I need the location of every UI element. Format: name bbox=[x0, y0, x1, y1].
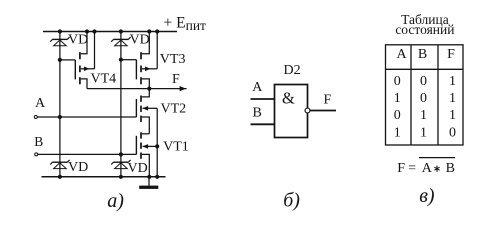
svg-text:VD: VD bbox=[68, 160, 88, 175]
svg-text:0: 0 bbox=[420, 74, 427, 89]
svg-text:B: B bbox=[446, 161, 455, 176]
terminal input B bbox=[35, 153, 38, 156]
wire output F with arrow bbox=[87, 86, 187, 91]
svg-text:0: 0 bbox=[420, 91, 427, 106]
svg-text:F: F bbox=[172, 72, 180, 87]
node rail-VD1 bbox=[58, 29, 62, 33]
svg-text:1: 1 bbox=[420, 108, 427, 123]
svg-text:VT3: VT3 bbox=[160, 52, 186, 67]
transistor VT1 (n-channel switch, gate from B) bbox=[136, 132, 157, 177]
svg-text:D2: D2 bbox=[284, 63, 301, 78]
node rail-VT3 substrate bbox=[155, 29, 159, 33]
svg-text:F: F bbox=[397, 161, 405, 176]
svg-text:&: & bbox=[282, 89, 295, 108]
diode VD (top-left, input A to +E) bbox=[50, 37, 69, 46]
svg-text:1: 1 bbox=[420, 125, 427, 140]
svg-text:F: F bbox=[447, 47, 455, 62]
node ground-VD4 bbox=[119, 175, 123, 179]
svg-text:A: A bbox=[35, 96, 46, 111]
svg-text:б): б) bbox=[283, 189, 300, 211]
svg-text:0: 0 bbox=[394, 74, 401, 89]
node rail-VT3 drain bbox=[147, 29, 151, 33]
wire input B to VT1 gate bbox=[38, 153, 136, 155]
svg-text:B: B bbox=[418, 47, 427, 62]
svg-text:1: 1 bbox=[394, 125, 401, 140]
node VT1 substrate junction bbox=[155, 144, 159, 148]
terminal input A bbox=[34, 116, 37, 119]
svg-text:A: A bbox=[422, 161, 433, 176]
wire gate output F bbox=[310, 110, 336, 112]
svg-text:VD: VD bbox=[130, 33, 150, 48]
svg-text:1: 1 bbox=[449, 91, 456, 106]
wire gate input B bbox=[251, 123, 275, 125]
ground symbol bbox=[139, 177, 158, 189]
inversion bubble bbox=[305, 108, 310, 113]
wire gate input A bbox=[251, 98, 275, 100]
svg-text:0: 0 bbox=[449, 125, 456, 140]
svg-text:VT4: VT4 bbox=[91, 71, 117, 86]
svg-text:1: 1 bbox=[394, 91, 401, 106]
node input B tap bbox=[119, 152, 123, 156]
svg-text:A: A bbox=[252, 80, 263, 95]
node rail-VD2 bbox=[119, 29, 123, 33]
wire ground rail bbox=[42, 176, 166, 178]
svg-text:0: 0 bbox=[394, 108, 401, 123]
node ground-VT1 source bbox=[147, 175, 151, 179]
node ground-VD3 bbox=[58, 175, 62, 179]
wire input A to VT2 gate bbox=[38, 116, 137, 118]
diode VD (bottom-right, ground to input B) bbox=[111, 160, 130, 169]
diode VD (top-right, input B to +E) bbox=[111, 37, 130, 46]
svg-text:состояний: состояний bbox=[395, 22, 454, 37]
node VT4 gate tap bbox=[58, 58, 62, 62]
label truth row 1 bbox=[394, 74, 456, 89]
label truth row 3 bbox=[394, 108, 456, 123]
svg-text:VT2: VT2 bbox=[161, 101, 187, 116]
node input A tap bbox=[58, 115, 62, 119]
wire +E power rail bbox=[43, 31, 177, 33]
transistor VT4 (p-channel load, gate from A) bbox=[60, 32, 95, 89]
svg-text:=: = bbox=[408, 161, 416, 176]
transistor VT3 (p-channel load, gate from B) bbox=[121, 32, 157, 89]
truth table grid bbox=[386, 45, 464, 145]
svg-text:1: 1 bbox=[449, 74, 456, 89]
node ground-substrate line bbox=[155, 175, 159, 179]
label truth row 4 bbox=[394, 125, 456, 140]
svg-text:1: 1 bbox=[449, 108, 456, 123]
svg-text:а): а) bbox=[107, 190, 124, 212]
node rail-VT4 drain bbox=[85, 29, 89, 33]
transistor VT2 (n-channel switch, gate from A) bbox=[136, 89, 157, 177]
svg-text:A: A bbox=[396, 47, 407, 62]
diode VD (bottom-left, ground to input A) bbox=[50, 160, 69, 169]
svg-text:VD: VD bbox=[128, 161, 148, 176]
label formula F = A*B bbox=[397, 158, 455, 176]
wire input-protection column 2 (input B diodes) bbox=[120, 32, 122, 177]
svg-text:B: B bbox=[34, 134, 43, 149]
svg-text:F: F bbox=[324, 93, 332, 108]
node output F junction bbox=[147, 87, 151, 91]
svg-text:+ Епит: + Епит bbox=[164, 14, 207, 32]
logic gate U-D2 box bbox=[275, 85, 308, 138]
node rail-VT4 substrate bbox=[92, 29, 96, 33]
label truth row 2 bbox=[394, 91, 456, 106]
svg-text:B: B bbox=[253, 105, 262, 120]
wire input-protection column 1 (input A diodes) bbox=[59, 32, 61, 177]
svg-text:VD: VD bbox=[68, 33, 88, 48]
svg-text:в): в) bbox=[419, 185, 435, 207]
svg-text:VT1: VT1 bbox=[163, 140, 189, 155]
node VT3 gate tap bbox=[119, 58, 123, 62]
